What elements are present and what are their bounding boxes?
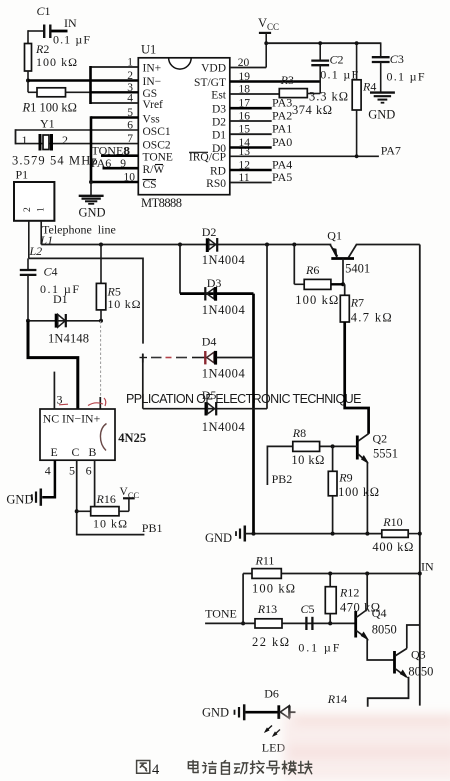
- svg-text:C3: C3: [390, 52, 404, 66]
- svg-text:4.7 kΩ: 4.7 kΩ: [351, 311, 392, 325]
- svg-text:R8: R8: [292, 426, 306, 440]
- svg-text:C5: C5: [301, 602, 315, 616]
- resistor R3: [279, 73, 348, 117]
- power Vcc top: [258, 16, 279, 68]
- svg-text:100 kΩ: 100 kΩ: [252, 582, 295, 596]
- wire U1 pin 11 PA5: [230, 170, 292, 184]
- node Vcc rail junction: [264, 41, 268, 45]
- capacitor C5: [298, 602, 339, 655]
- svg-text:TONE: TONE: [205, 607, 237, 621]
- svg-text:6: 6: [86, 464, 92, 478]
- svg-text:GND: GND: [79, 206, 106, 220]
- svg-text:5: 5: [127, 107, 133, 119]
- svg-text:1N4004: 1N4004: [202, 253, 246, 267]
- wire D2 branch down to D3: [179, 245, 181, 294]
- svg-text:2: 2: [62, 133, 68, 147]
- node junction C/R16: [75, 509, 79, 513]
- svg-text:6: 6: [127, 119, 133, 131]
- wire P1 pin2 down to L2: [28, 221, 30, 259]
- svg-text:Q4: Q4: [372, 606, 387, 620]
- svg-text:4: 4: [127, 93, 133, 105]
- svg-text:RD: RD: [210, 166, 226, 178]
- pin numbers 11-20: [238, 57, 251, 184]
- wire IN branch down to TONE line: [242, 574, 244, 624]
- svg-text:R1 100 kΩ: R1 100 kΩ: [22, 101, 77, 115]
- svg-text:D4: D4: [202, 335, 217, 349]
- svg-text:VDD: VDD: [201, 63, 226, 75]
- svg-text:IN: IN: [64, 16, 77, 30]
- svg-text:Vss: Vss: [143, 114, 161, 126]
- node junction L1/R6 branch: [292, 243, 296, 247]
- svg-text:D5: D5: [202, 388, 217, 402]
- svg-text:LED: LED: [262, 741, 286, 755]
- svg-text:Q3: Q3: [411, 648, 426, 662]
- svg-text:TONE: TONE: [143, 152, 173, 164]
- wire Q3 collector to rail: [407, 625, 420, 649]
- resistor R13: [252, 602, 289, 649]
- svg-text:5401: 5401: [345, 262, 370, 276]
- svg-text:C1: C1: [37, 4, 51, 18]
- resistor R5: [96, 245, 140, 321]
- resistor R11: [252, 554, 295, 596]
- overline on CS: [143, 179, 157, 181]
- node C2 rail junction: [318, 41, 322, 45]
- svg-text:PA2: PA2: [272, 109, 292, 123]
- diode D5 1N4004: [143, 388, 267, 434]
- capacitor C3: [372, 42, 425, 92]
- svg-text:8050: 8050: [408, 665, 433, 679]
- resistor R9: [328, 446, 379, 533]
- svg-text:IRQ/CP: IRQ/CP: [189, 152, 226, 164]
- ground symbol under C3: [368, 93, 395, 122]
- svg-text:RS0: RS0: [206, 178, 226, 190]
- wire Q2 base line: [320, 445, 358, 447]
- svg-text:2: 2: [127, 70, 133, 82]
- diode D3 1N4004: [180, 276, 254, 317]
- wire faint R5 to opto IN+: [100, 321, 102, 397]
- svg-text:R6: R6: [305, 263, 319, 277]
- wire junction down to R1: [27, 81, 29, 93]
- svg-text:PB1: PB1: [142, 521, 163, 535]
- wire U1 pin 12 PA4: [230, 158, 292, 172]
- wire IN line: [243, 573, 420, 575]
- node junction R11/TONE: [241, 621, 245, 625]
- node R4 rail junction: [355, 41, 359, 45]
- svg-text:D6: D6: [264, 687, 279, 701]
- resistor R2: [25, 42, 78, 82]
- transistor Q1 5401: [327, 229, 370, 276]
- svg-text:10 kΩ: 10 kΩ: [93, 517, 127, 531]
- node junction gnd/R9: [331, 532, 335, 536]
- svg-text:100 kΩ: 100 kΩ: [338, 485, 379, 499]
- wire U1 pin 17 PA3: [230, 96, 292, 110]
- wire L2 vertical lower part to D5: [142, 354, 144, 409]
- wire 4N25 pin 6 B stub: [86, 460, 95, 507]
- wire opto IN+ stub: [99, 397, 101, 409]
- wire Q3 emitter down-left: [368, 677, 409, 707]
- svg-text:L2: L2: [29, 244, 43, 258]
- svg-text:C2: C2: [330, 53, 344, 67]
- svg-text:PPLICATION OF ELECTRONIC TECHN: PPLICATION OF ELECTRONIC TECHNIQUE: [126, 392, 362, 406]
- svg-text:8: 8: [124, 145, 130, 157]
- svg-text:R9: R9: [338, 471, 352, 485]
- svg-text:100 kΩ: 100 kΩ: [36, 55, 77, 69]
- wire U1 pin 9 PA6: [91, 156, 138, 170]
- node junction rail/R10: [418, 532, 422, 536]
- svg-text:Vref: Vref: [143, 99, 164, 111]
- svg-text:GND: GND: [6, 493, 33, 507]
- svg-text:1: 1: [37, 207, 47, 212]
- pin labels U1 right: [189, 63, 227, 191]
- svg-text:4: 4: [45, 464, 51, 478]
- svg-text:IN−: IN−: [143, 76, 162, 88]
- wire 4N25 curve mark: [100, 424, 106, 451]
- wire bus pin5 to ground: [90, 116, 93, 182]
- power Vcc at R16: [120, 486, 140, 511]
- svg-text:10 kΩ: 10 kΩ: [291, 453, 324, 467]
- svg-text:PA7: PA7: [381, 144, 401, 158]
- svg-text:IN+: IN+: [143, 63, 162, 75]
- svg-text:2: 2: [23, 207, 33, 212]
- svg-text:Q1: Q1: [327, 229, 342, 243]
- svg-text:CS: CS: [143, 179, 157, 191]
- wire Vcc rail: [266, 42, 381, 44]
- connector P1: [14, 168, 54, 221]
- wire red dash marks near IN+: [59, 398, 106, 406]
- svg-text:D1: D1: [53, 292, 68, 306]
- pin numbers 1-10: [120, 57, 135, 184]
- svg-text:1: 1: [22, 133, 28, 147]
- svg-text:R14: R14: [327, 692, 347, 706]
- diode D6 LED: [246, 687, 296, 719]
- node junction C4/D1: [26, 319, 30, 323]
- wire U1 pin 14 PA0: [230, 135, 292, 149]
- wire Q1 base stem: [342, 259, 344, 285]
- svg-text:MT8888: MT8888: [141, 196, 182, 210]
- node junction IN/Q4: [365, 572, 369, 576]
- svg-text:1N4148: 1N4148: [48, 332, 89, 346]
- wire U1 pin 13 PA7 line: [230, 144, 401, 158]
- wire P1 pin1 down to L1: [40, 221, 42, 245]
- svg-text:D3: D3: [212, 104, 226, 116]
- node junction gnd/Q2: [365, 532, 369, 536]
- capacitor C1: [28, 4, 90, 47]
- wire U1 pin 10: [91, 181, 138, 183]
- svg-text:3.579 54 MHz: 3.579 54 MHz: [12, 154, 97, 168]
- capacitor C4: [20, 258, 80, 320]
- svg-text:5: 5: [69, 464, 75, 478]
- node junction L1/R5: [99, 243, 103, 247]
- svg-text:U1: U1: [141, 43, 156, 57]
- node junction R5/D1: [99, 319, 103, 323]
- op-amp U1 MT8888 body: [138, 43, 230, 211]
- wire right rail vertical: [419, 245, 421, 706]
- ground symbol left of 4N25: [6, 489, 40, 507]
- resistor R1: [22, 88, 91, 115]
- node junction L1/D5 branch: [265, 243, 269, 247]
- wire U1 pin 1: [91, 66, 139, 68]
- svg-text:PB2: PB2: [272, 472, 293, 486]
- svg-text:R13: R13: [257, 602, 277, 616]
- wire U1 pin 5: [91, 116, 138, 119]
- node junction R2/pin2: [26, 79, 30, 83]
- transistor Q4 8050: [356, 606, 397, 640]
- resistor R6: [294, 245, 343, 308]
- svg-text:R10: R10: [382, 515, 402, 529]
- diode D2 1N4004: [202, 225, 246, 267]
- node R4 PA7 junction: [355, 154, 359, 158]
- wire L2 line: [29, 258, 143, 343]
- svg-text:0.1 µF: 0.1 µF: [387, 70, 425, 84]
- svg-text:R16: R16: [96, 492, 116, 506]
- wire TONE line: [205, 622, 356, 624]
- svg-text:R12: R12: [339, 586, 359, 600]
- svg-text:0.1 µF: 0.1 µF: [53, 33, 90, 47]
- svg-text:OSC1: OSC1: [143, 126, 171, 138]
- svg-text:400 kΩ: 400 kΩ: [372, 540, 413, 554]
- svg-text:1N4004: 1N4004: [202, 303, 246, 317]
- svg-text:Q2: Q2: [373, 432, 388, 446]
- svg-text:10 kΩ: 10 kΩ: [108, 297, 141, 311]
- diode D4 1N4004: [140, 335, 254, 381]
- svg-text:1N4004: 1N4004: [202, 420, 246, 434]
- svg-text:PA1: PA1: [272, 122, 292, 136]
- svg-text:R/W: R/W: [143, 164, 165, 176]
- wire U1 pin 18: [230, 93, 280, 95]
- svg-text:374 kΩ: 374 kΩ: [292, 103, 332, 117]
- resistor R10: [372, 515, 419, 554]
- wire U1 pin 3: [91, 91, 139, 93]
- wire 4N25 pin 5 C down to PB1: [69, 460, 162, 535]
- node junction Q1 base: [341, 282, 345, 286]
- optocoupler U2 4N25 body: [40, 409, 146, 460]
- wire bus pins 1-4: [89, 66, 92, 104]
- svg-text:D2: D2: [202, 225, 217, 239]
- svg-text:10: 10: [124, 172, 136, 184]
- svg-text:C4: C4: [44, 265, 58, 279]
- svg-text:D2: D2: [212, 117, 226, 129]
- svg-text:4: 4: [152, 762, 160, 778]
- wire C1 to R2: [27, 30, 29, 43]
- svg-text:22 kΩ: 22 kΩ: [252, 635, 289, 649]
- wire 4N25 pin 3 stub: [54, 372, 62, 409]
- svg-text:8050: 8050: [372, 623, 397, 637]
- svg-text:ECB: ECB: [51, 445, 97, 459]
- svg-text:R7: R7: [350, 296, 364, 310]
- svg-text:4N25: 4N25: [118, 431, 146, 445]
- svg-text:IN: IN: [421, 560, 434, 574]
- ground symbol under U1: [79, 182, 106, 220]
- svg-text:R3: R3: [280, 73, 294, 87]
- crystal Y1: [12, 117, 138, 168]
- svg-text:GND: GND: [368, 108, 395, 122]
- node junction L1/D3 branch: [178, 243, 182, 247]
- wire Q4 collector up to IN: [366, 574, 368, 610]
- wire Q2 emitter down: [366, 462, 368, 533]
- resistor R16: [77, 492, 129, 531]
- svg-text:100 kΩ: 100 kΩ: [295, 293, 338, 307]
- node junction rail/IN: [418, 572, 422, 576]
- node junction gnd/D3: [252, 532, 256, 536]
- ground symbol mid-left: [205, 526, 245, 545]
- svg-text:R2: R2: [35, 42, 49, 56]
- wire U1 pin 16 PA2: [230, 109, 292, 123]
- svg-text:9: 9: [120, 158, 126, 170]
- svg-text:OSC2: OSC2: [143, 139, 171, 151]
- svg-text:NC IN−IN+: NC IN−IN+: [43, 411, 101, 425]
- transistor Q3 8050: [395, 648, 434, 679]
- svg-text:3.3 kΩ: 3.3 kΩ: [309, 90, 348, 104]
- transistor Q2 5551: [357, 432, 398, 464]
- svg-text:ST/GT: ST/GT: [194, 77, 226, 89]
- resistor R7: [340, 284, 391, 324]
- overline on IRQ: [189, 151, 208, 153]
- wire U1 pin 19: [230, 80, 320, 83]
- wire U1 pin 2: [28, 79, 138, 82]
- node junction R12/TONE: [328, 621, 332, 625]
- wire ground line: [246, 533, 382, 535]
- svg-text:P1: P1: [16, 168, 29, 182]
- node IN (C1 input stub): [52, 16, 77, 31]
- resistor R8: [267, 426, 324, 486]
- wire U1 pin 20: [230, 67, 266, 69]
- svg-text:1: 1: [127, 57, 133, 69]
- LED arrows: [264, 726, 280, 737]
- wire Q1 emitter rail to right: [356, 244, 420, 246]
- wire thick C4 to opto IN-: [28, 321, 78, 409]
- svg-text:PA5: PA5: [272, 170, 292, 184]
- diode D1 1N4148: [28, 292, 101, 346]
- overline on W of R/W: [155, 164, 163, 166]
- ground symbol bottom D6: [202, 704, 244, 720]
- wire D5 branch up to L1: [266, 245, 268, 409]
- svg-text:7: 7: [127, 133, 133, 145]
- resistor R12: [325, 574, 380, 624]
- wire Q4 emitter to Q3 base: [367, 639, 393, 660]
- node junction pin10/ground: [89, 180, 93, 184]
- wire U1 pin 15 PA1: [230, 122, 292, 136]
- wire R7 down to Q2 collector: [345, 322, 369, 434]
- wire L1 line: [41, 244, 331, 246]
- wire U1 pin 8 TONE: [92, 143, 139, 157]
- node junction IN/R12: [328, 572, 332, 576]
- pin labels U1 left: [143, 63, 173, 192]
- svg-text:1N4004: 1N4004: [202, 367, 246, 381]
- svg-text:GND: GND: [202, 706, 229, 720]
- wire thick D3 to ground rail: [252, 294, 255, 534]
- resistor R4: [352, 43, 376, 156]
- caption figure 4: [137, 760, 312, 774]
- svg-text:R11: R11: [255, 554, 275, 568]
- svg-text:Est: Est: [211, 90, 227, 102]
- svg-text:5551: 5551: [373, 447, 398, 461]
- svg-text:Y1: Y1: [40, 117, 55, 131]
- svg-text:PA0: PA0: [272, 135, 292, 149]
- wire U1 pin 4: [91, 102, 139, 104]
- svg-text:D1: D1: [212, 130, 226, 142]
- svg-text:GND: GND: [205, 531, 232, 545]
- wire 4N25 pin 4 E to ground: [42, 460, 55, 497]
- node junction R9 base: [331, 444, 335, 448]
- capacitor C2: [311, 43, 358, 93]
